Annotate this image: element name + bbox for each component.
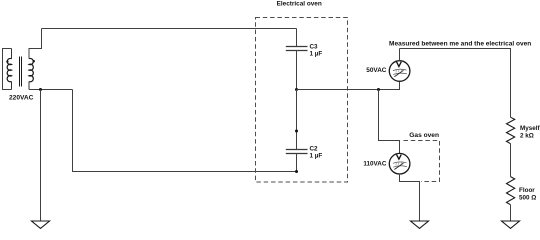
wire: primary bottom stub (11, 82, 13, 90)
wire: C3 bottom lead to mid node (296, 51, 298, 90)
transformer polarity dot primary (6, 60, 8, 62)
voltmeter VM2 (389, 153, 410, 174)
svg-text:110VAC: 110VAC (363, 161, 386, 168)
wire: mid node down to C2 (296, 90, 298, 150)
svg-text:C3: C3 (310, 43, 319, 50)
wire: top right horizontal (400, 49, 511, 118)
transformer T1 core (20, 57, 22, 87)
svg-text:1 µF: 1 µF (310, 50, 323, 57)
svg-text:2 kΩ: 2 kΩ (520, 133, 534, 140)
resistor Floor (507, 177, 515, 205)
capacitor C2 (286, 150, 308, 154)
wire: C3 top lead (296, 29, 298, 47)
junction dot gas branch node (377, 88, 380, 91)
svg-text:50VAC: 50VAC (366, 67, 387, 74)
junction dot ground node (39, 88, 42, 91)
wire: secondary top jog (29, 29, 42, 59)
voltmeter VM1 (389, 61, 410, 82)
enclosure: Gas oven dashed box (404, 141, 440, 182)
svg-text:Floor: Floor (519, 187, 535, 194)
transformer polarity dot secondary (33, 60, 35, 62)
svg-text:Gas oven: Gas oven (409, 132, 439, 139)
svg-text:Electrical oven: Electrical oven (277, 1, 322, 8)
svg-text:Measured between me and the el: Measured between me and the electrical o… (389, 40, 531, 47)
svg-text:Myself: Myself (520, 125, 540, 132)
wire: mid horizontal to voltmeter VM1 (297, 82, 400, 90)
ground G2 (411, 221, 429, 228)
svg-text:1 µF: 1 µF (310, 152, 323, 159)
wire: gas branch down and right (379, 90, 400, 154)
wire: down to ground G1 (40, 90, 42, 222)
junction dot mid node (295, 88, 298, 91)
wire: secondary bottom stub (28, 82, 30, 90)
wire: VM2 bottom to ground G2 (400, 174, 420, 221)
wire: between resistors (510, 144, 512, 177)
ground G1 (32, 221, 50, 228)
wire: Floor to ground G3 (510, 205, 512, 221)
svg-text:220VAC: 220VAC (9, 95, 34, 102)
transformer T1 primary winding (7, 58, 11, 81)
wire: secondary bottom horizontal (29, 89, 73, 91)
transformer T1 secondary winding (29, 58, 33, 81)
resistor Myself (507, 117, 515, 143)
wire: down-right corner to bottom rail (73, 90, 297, 172)
ground G3 (502, 221, 520, 228)
svg-text:500 Ω: 500 Ω (519, 195, 536, 202)
wire: top horizontal to C3 (42, 28, 297, 30)
wire: VM1 top lead (399, 49, 401, 61)
wire: C2 bottom lead (296, 154, 298, 172)
junction dot bottom rail node (295, 170, 298, 173)
wire: primary left loop (3, 49, 12, 90)
node dot on C2 branch (295, 130, 298, 133)
wire: primary top stub (11, 49, 13, 59)
capacitor C3 (286, 47, 308, 51)
enclosure: Electrical oven dashed box (256, 18, 348, 183)
